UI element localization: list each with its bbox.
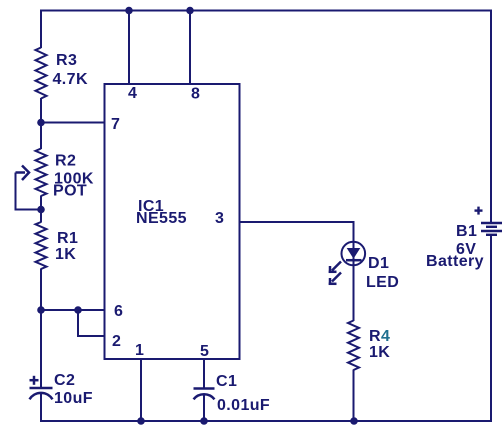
node bottom rail / C1 xyxy=(200,417,208,425)
wire left rail R2 to R1 xyxy=(40,196,42,223)
resistor R4 xyxy=(348,321,359,371)
svg-text:R2: R2 xyxy=(55,153,76,170)
svg-text:7: 7 xyxy=(111,116,120,133)
wire pin 5 drop to C1 xyxy=(203,359,205,388)
svg-text:5: 5 xyxy=(200,343,209,360)
svg-text:4: 4 xyxy=(128,85,137,102)
resistor R2 (pot body) xyxy=(36,149,47,197)
potentiometer R2 wiper arrow xyxy=(16,166,42,210)
wire pin 6 xyxy=(41,309,105,311)
svg-text:3: 3 xyxy=(215,210,224,227)
wire pin 1 drop xyxy=(140,359,142,422)
wire pin 3 to LED xyxy=(240,222,354,321)
LED D1 xyxy=(342,242,366,266)
wire bottom rail xyxy=(40,420,492,422)
battery plus sign xyxy=(475,209,483,211)
LED D1 emission arrows xyxy=(329,262,341,286)
svg-text:R3: R3 xyxy=(56,52,77,69)
capacitor C2 xyxy=(30,376,53,400)
node top rail / pin8 xyxy=(186,7,194,15)
svg-text:C2: C2 xyxy=(54,372,75,389)
svg-text:2: 2 xyxy=(112,333,121,350)
svg-text:1K: 1K xyxy=(55,246,76,263)
wire pin 7 xyxy=(41,122,105,124)
svg-text:4.7K: 4.7K xyxy=(53,71,88,88)
svg-text:0.01uF: 0.01uF xyxy=(217,397,270,414)
node pin2 branch xyxy=(74,306,82,314)
svg-text:NE555: NE555 xyxy=(136,210,187,227)
wire pin 2 branch xyxy=(78,310,105,336)
wire pin 4 drop xyxy=(128,11,130,85)
svg-text:R4: R4 xyxy=(369,328,390,345)
svg-text:B1: B1 xyxy=(456,223,477,240)
wire left rail R1 to C2 xyxy=(40,269,42,388)
svg-text:1: 1 xyxy=(135,342,144,359)
wire pin 8 drop xyxy=(189,11,191,85)
op-amp U1: IC1 NE555 body xyxy=(105,84,240,359)
svg-text:C1: C1 xyxy=(216,373,237,390)
node left rail / pin7 xyxy=(37,119,45,127)
node bottom rail / pin1 xyxy=(137,417,145,425)
svg-text:8: 8 xyxy=(191,86,200,103)
wire C1 to bottom rail xyxy=(203,394,205,423)
svg-text:D1: D1 xyxy=(368,255,389,272)
wire R4 to bottom rail xyxy=(353,370,355,423)
node bottom rail / R4 xyxy=(350,417,358,425)
wire right rail above battery xyxy=(490,10,492,223)
node left rail / pin6 xyxy=(37,306,45,314)
resistor R1 xyxy=(36,222,47,269)
wire top rail xyxy=(40,10,492,12)
capacitor C1 xyxy=(194,389,215,400)
wire left rail R3 to R2 xyxy=(40,98,42,149)
svg-text:POT: POT xyxy=(53,183,87,200)
svg-text:10uF: 10uF xyxy=(54,390,93,407)
node R2/R1 junction xyxy=(37,206,45,214)
wire left rail C2 to bottom xyxy=(40,394,42,423)
svg-text:LED: LED xyxy=(366,274,399,291)
wire left rail segment above R3 xyxy=(40,10,42,49)
battery B1 xyxy=(475,207,503,235)
resistor R3 xyxy=(36,48,47,99)
node top rail / pin4 xyxy=(125,7,133,15)
svg-text:6: 6 xyxy=(114,303,123,320)
wire right rail below battery xyxy=(490,236,492,422)
svg-text:Battery: Battery xyxy=(426,253,484,270)
svg-text:1K: 1K xyxy=(369,344,390,361)
svg-text:R1: R1 xyxy=(57,230,78,247)
C2 plus sign xyxy=(30,379,39,382)
